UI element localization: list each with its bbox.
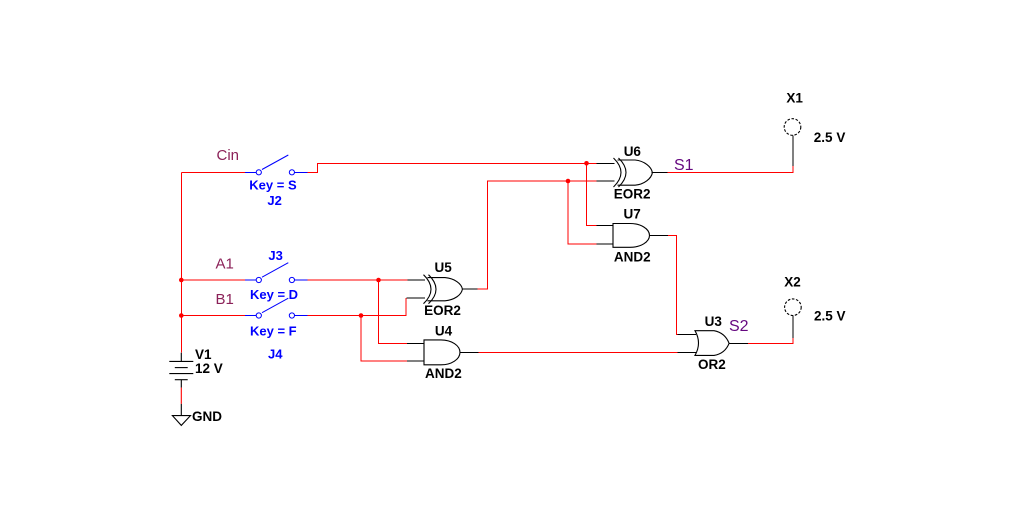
switch J4 right contact xyxy=(289,313,294,318)
battery V1 top lead xyxy=(180,353,182,362)
wire Cin horizontal to J2 xyxy=(181,171,245,173)
op-amp gates and parts xyxy=(424,119,802,365)
svg-text:Key = D: Key = D xyxy=(250,287,298,302)
svg-text:J4: J4 xyxy=(268,346,283,361)
XOR gate U5 inner arc xyxy=(429,275,437,304)
wire left vertical bus (Cin/A1/B1 to V1) xyxy=(180,172,182,352)
pin stub U3 output xyxy=(729,342,748,344)
pin stub U4 input B xyxy=(407,360,424,362)
wire U5 output to U6 input B xyxy=(478,181,597,289)
battery V1 plate 3 xyxy=(169,373,193,375)
switch J4 blade xyxy=(262,298,288,313)
pin stub U3 input B xyxy=(677,351,696,353)
wire U5out branch to U7 input B xyxy=(568,181,597,244)
pin stub U7 input A xyxy=(597,224,614,226)
lamp X1 xyxy=(784,119,801,136)
switch J3 right stub xyxy=(295,279,308,281)
svg-text:Key = F: Key = F xyxy=(250,323,297,338)
svg-text:AND2: AND2 xyxy=(614,249,651,264)
OR gate U3 body xyxy=(695,331,729,356)
wire U4 output to U3 input B xyxy=(478,351,677,353)
node junction B1 bus xyxy=(179,313,184,318)
wire J4 to U5 input B xyxy=(307,298,405,315)
wire lamp X1 lead xyxy=(792,136,794,167)
node junction B1/U4 xyxy=(359,313,364,318)
switch J2 blade xyxy=(262,155,288,170)
pin stub U5 input A xyxy=(407,279,425,281)
wire B1 horizontal to J4 xyxy=(181,315,245,317)
svg-text:U5: U5 xyxy=(435,260,453,275)
wire S1: U6 output to lamp X1 xyxy=(668,166,794,173)
svg-text:AND2: AND2 xyxy=(425,366,462,381)
wire A1 horizontal to J3 xyxy=(181,279,245,281)
wire J3 to U5 input A xyxy=(307,279,407,281)
wire battery to ground xyxy=(180,388,182,404)
XOR gate U5 outer arc xyxy=(424,275,432,304)
svg-text:S1: S1 xyxy=(674,157,694,174)
svg-text:U7: U7 xyxy=(624,206,641,221)
svg-text:Cin: Cin xyxy=(217,147,240,164)
XOR gate U5 body xyxy=(428,278,463,301)
switch J3 left stub xyxy=(245,279,256,281)
svg-text:U6: U6 xyxy=(624,144,642,159)
switch J4 left contact xyxy=(256,313,261,318)
switch J2 right contact xyxy=(289,170,294,175)
pin stub U7 output xyxy=(650,234,669,236)
pin stub U6 input B xyxy=(597,180,615,182)
node junction Cin/U7 xyxy=(584,161,589,166)
XOR gate U6 body xyxy=(618,160,653,185)
switch J2 right stub xyxy=(295,171,308,173)
pin stub U5 input B xyxy=(407,297,425,299)
svg-text:A1: A1 xyxy=(216,256,234,273)
ground lead xyxy=(180,404,182,416)
wire U7 output to U3 input A xyxy=(668,235,677,334)
svg-text:12 V: 12 V xyxy=(195,361,223,376)
svg-text:Key = S: Key = S xyxy=(249,178,297,193)
XOR gate U6 outer arc xyxy=(614,158,622,187)
svg-text:EOR2: EOR2 xyxy=(614,187,651,202)
svg-text:OR2: OR2 xyxy=(698,357,726,372)
switch J3 left contact xyxy=(256,277,261,282)
wire A1 branch to U4 input A xyxy=(379,280,408,343)
switch J2 left stub xyxy=(245,171,256,173)
svg-text:S2: S2 xyxy=(729,318,749,335)
battery V1 plate 1 xyxy=(169,360,193,362)
svg-text:U4: U4 xyxy=(435,324,453,339)
pin stub U3 input A xyxy=(677,334,696,336)
switch J2 left contact xyxy=(256,170,261,175)
wire J2 to U6 input A xyxy=(307,163,596,172)
svg-text:U3: U3 xyxy=(705,314,723,329)
node junction U5out/U7 xyxy=(566,179,571,184)
svg-text:X2: X2 xyxy=(784,274,801,289)
AND gate U4 body xyxy=(424,340,460,365)
svg-text:GND: GND xyxy=(192,409,222,424)
battery V1 bottom lead xyxy=(180,380,182,388)
node junction A1/U4 xyxy=(376,278,381,283)
AND gate U7 body xyxy=(613,224,650,248)
svg-text:X1: X1 xyxy=(786,90,803,105)
wire S2: U3 output to lamp X2 xyxy=(748,338,793,343)
switch J3 blade xyxy=(262,263,288,278)
svg-text:V1: V1 xyxy=(195,347,212,362)
svg-text:2.5 V: 2.5 V xyxy=(814,130,846,145)
pin stub U5 output xyxy=(462,288,477,290)
switch J4 left stub xyxy=(245,315,256,317)
ground symbol xyxy=(172,416,190,426)
switch J4 right stub xyxy=(295,315,308,317)
pin stub U6 input A xyxy=(597,162,615,164)
switch J3 right contact xyxy=(289,277,294,282)
wire Cin branch to U7 input A xyxy=(587,163,597,225)
pin stub U6 output xyxy=(651,172,667,174)
svg-text:EOR2: EOR2 xyxy=(424,303,461,318)
wire B1 branch to U4 input B xyxy=(361,316,407,362)
svg-text:2.5 V: 2.5 V xyxy=(814,309,846,324)
lamp X2 xyxy=(785,299,802,316)
XOR gate U6 inner arc xyxy=(619,158,627,187)
svg-text:B1: B1 xyxy=(216,291,234,308)
svg-text:J2: J2 xyxy=(267,193,281,208)
wire lamp X2 lead xyxy=(792,316,794,339)
pin stub U4 input A xyxy=(407,342,424,344)
node junction A1 bus xyxy=(179,278,184,283)
pin stub U7 input B xyxy=(597,243,614,245)
battery V1 plate 4 xyxy=(175,379,188,381)
pin stub U4 output xyxy=(460,351,479,353)
battery V1 plate 2 xyxy=(175,367,188,369)
svg-text:J3: J3 xyxy=(268,248,282,263)
